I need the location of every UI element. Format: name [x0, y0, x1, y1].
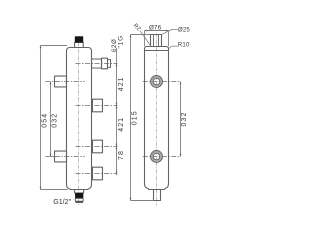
svg-text:78: 78 — [118, 150, 125, 160]
top flange cap — [145, 47, 169, 51]
right port 3 neck — [92, 142, 93, 152]
circle 1 centerline horizontal — [143, 81, 181, 83]
top air vent cap (black) — [75, 37, 83, 43]
port centerline right port 2 — [76, 105, 118, 107]
top neck — [75, 42, 84, 47]
left port 1 fitting — [55, 76, 67, 87]
svg-text:R10: R10 — [178, 42, 190, 48]
svg-text:Ø76: Ø76 — [149, 24, 162, 31]
svg-text:421: 421 — [118, 117, 125, 132]
label R10 with leader — [169, 46, 178, 49]
top nipple — [151, 35, 162, 47]
bottom stem — [154, 190, 161, 201]
circle 2 centerline horizontal — [143, 156, 181, 158]
right port 2 fitting — [93, 99, 103, 112]
dimension chain 124 / 124 / 87 — [116, 48, 118, 176]
port centerline left port 2 — [45, 156, 85, 158]
dimension 450 — [41, 46, 68, 190]
svg-text:Ø25: Ø25 — [178, 27, 190, 33]
port centerline right port 4 — [76, 173, 118, 175]
bottom drain plug dark tip — [76, 201, 83, 203]
centerline vessel left view — [78, 36, 80, 206]
port centerline right port 1 — [76, 63, 118, 65]
dimension Ø76 — [145, 31, 169, 47]
label R2 with leader — [140, 31, 150, 46]
right port 1 thread stub — [108, 60, 111, 68]
right port 2 neck — [92, 101, 93, 111]
port hole circle 2 inner — [153, 153, 160, 160]
bottom drain plug (black band) — [75, 193, 83, 198]
svg-text:032: 032 — [52, 113, 59, 128]
right port 4 neck — [92, 169, 93, 179]
port hole circle 2 outer — [151, 151, 163, 163]
right port 1 union nut — [102, 58, 108, 69]
centerline vessel right view — [156, 34, 158, 206]
right port 3 fitting — [93, 140, 103, 153]
nipple thread lines — [154, 35, 159, 47]
port centerline left port 1 — [45, 81, 85, 83]
left port 2 fitting — [55, 151, 67, 162]
svg-text:421: 421 — [118, 76, 125, 91]
dimension 510 — [131, 35, 154, 201]
label Ø25 with leader — [161, 29, 178, 34]
port hole circle 1 thread ring — [152, 77, 161, 86]
svg-text:"1G: "1G — [118, 35, 125, 49]
port hole circle 2 thread ring — [152, 152, 161, 161]
vessel body right view — [145, 51, 169, 190]
right port 1 neck — [92, 59, 102, 68]
vessel body left view — [67, 48, 92, 190]
svg-text:032: 032 — [181, 112, 188, 127]
svg-text:054: 054 — [42, 113, 49, 128]
port centerline right port 3 — [76, 146, 118, 148]
dimension 230 right view — [180, 82, 182, 157]
bottom neck — [75, 190, 84, 194]
right port 4 fitting — [93, 167, 103, 180]
svg-text:015: 015 — [132, 110, 139, 125]
port hole circle 1 inner — [153, 78, 160, 85]
svg-text:G1/2": G1/2" — [53, 198, 71, 206]
dimension 230 left view — [51, 82, 55, 157]
bottom drain plug lower body — [75, 198, 83, 201]
port hole circle 1 outer — [151, 76, 163, 88]
